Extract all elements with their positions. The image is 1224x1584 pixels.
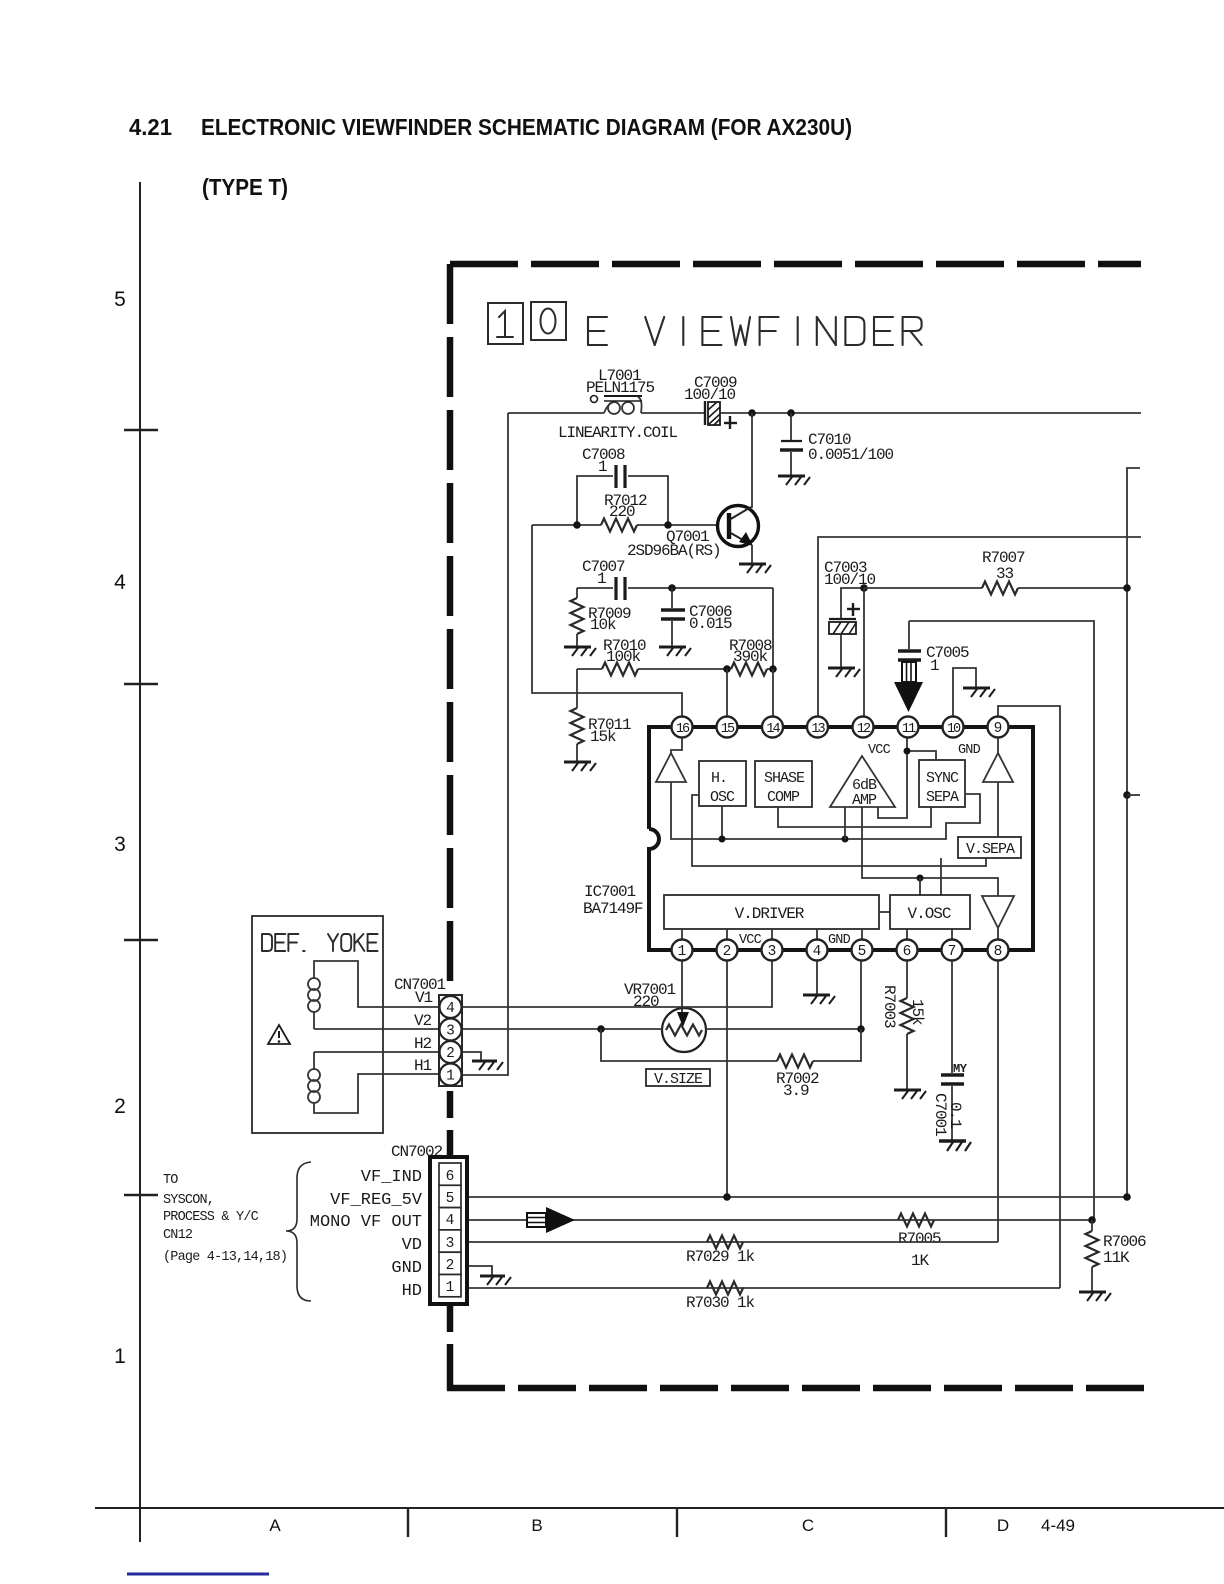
resistor R7008 390k (729, 637, 773, 676)
svg-text:A: A (269, 1516, 281, 1535)
svg-text:VF_IND: VF_IND (361, 1168, 422, 1187)
svg-text:2: 2 (446, 1258, 455, 1274)
resistor R7009 10k (571, 588, 632, 646)
svg-text:14: 14 (766, 722, 780, 737)
svg-text:R7003: R7003 (880, 985, 898, 1028)
svg-text:C: C (802, 1516, 814, 1535)
left margin rule (114, 182, 158, 1542)
svg-text:3: 3 (446, 1024, 455, 1040)
svg-text:V2: V2 (414, 1012, 432, 1030)
block number boxes: 1 0 (488, 302, 566, 344)
CN7002 pin 4 (439, 1208, 461, 1230)
svg-text:0.0051/100: 0.0051/100 (808, 446, 894, 464)
svg-text:1: 1 (446, 1280, 455, 1296)
node: R7007 / rail junction (1123, 584, 1131, 592)
svg-text:H.: H. (711, 770, 727, 787)
node: R7008 right junction (769, 665, 777, 673)
arrow (MONO VF OUT) (527, 1207, 575, 1233)
svg-text:H1: H1 (414, 1057, 432, 1075)
wire: VD run (467, 1241, 998, 1243)
DEF. YOKE box (252, 916, 383, 1133)
warning triangle (268, 1025, 290, 1044)
svg-text:V.OSC: V.OSC (907, 905, 950, 923)
svg-text:13: 13 (811, 722, 825, 737)
svg-text:220: 220 (609, 503, 635, 521)
IC pin 3 (762, 940, 783, 961)
svg-text:IC7001: IC7001 (584, 883, 636, 901)
wire: pin 8 drop to VD run (997, 961, 999, 1242)
wire: right vertical rail x1127 (1127, 468, 1140, 1197)
IC pin 1 (672, 940, 693, 961)
node: R7012 right junction (664, 521, 672, 529)
ground (C7006) (659, 647, 691, 656)
blue footer line (127, 1573, 269, 1576)
node: R7010/R7008 junction (723, 665, 731, 673)
node: lower bus / V.OSC junction (917, 875, 924, 882)
svg-text:220: 220 (633, 993, 659, 1011)
IC internal: V.DRIVER block (664, 895, 879, 929)
wire/ground (CN7001 pin 2) (462, 1052, 503, 1070)
wire: SHASE COMP to SYNC SEPA link (778, 807, 931, 827)
svg-text:0.015: 0.015 (689, 615, 732, 633)
wire: VR7001 right to pin 5 (706, 961, 861, 1029)
resistor R7007 33 (864, 549, 1127, 595)
svg-text:PELN1175: PELN1175 (586, 379, 655, 397)
svg-text:VCC: VCC (739, 933, 762, 948)
label box V.SIZE (646, 1069, 710, 1088)
ground (C7010) (778, 476, 810, 485)
wire: V.SEPA bottom to V.OSC top (940, 858, 942, 895)
IC pin 13 (807, 717, 828, 738)
svg-text:(TYPE T): (TYPE T) (202, 174, 288, 200)
resistor R7029 1k (686, 1236, 755, 1267)
capacitor C7007 1 (577, 558, 773, 600)
svg-text:TO: TO (163, 1173, 178, 1188)
svg-text:15: 15 (721, 722, 735, 737)
svg-text:12: 12 (857, 722, 871, 737)
svg-text:COMP: COMP (767, 789, 800, 806)
dashed schematic border top (450, 261, 1141, 268)
page title (129, 114, 852, 200)
curly brace (286, 1162, 311, 1301)
node: pin 11 branch junction (904, 748, 911, 755)
IC internal: V.SEPA block (958, 837, 1021, 858)
vertical deflection coil (V1-V2) (308, 961, 439, 1029)
wire: pin 1 to VR7001 wiper (681, 961, 683, 1013)
CN7002 pin 3 (439, 1230, 461, 1252)
ground (C7003) (828, 668, 860, 677)
IC pin 6 (897, 940, 918, 961)
svg-text:MY: MY (953, 1062, 968, 1076)
svg-text:15k: 15k (908, 999, 926, 1025)
resistor R7010 100k (577, 637, 727, 676)
resistor R7005 1K (898, 1214, 941, 1271)
svg-text:3.9: 3.9 (783, 1082, 809, 1100)
svg-text:4: 4 (446, 1213, 455, 1229)
CN7002 pin 5 (439, 1185, 461, 1207)
capacitor C7008 1 (577, 446, 668, 525)
wire: pin 9 loop to x1060 drop (998, 706, 1060, 1288)
wire: junction to pin 15 (726, 669, 728, 717)
svg-text:390k: 390k (733, 648, 768, 666)
svg-text:GND: GND (391, 1259, 422, 1278)
svg-text:R7005: R7005 (898, 1230, 941, 1248)
IC pin 15 (717, 717, 738, 738)
capacitor C7009 100/10 (electrolytic) (684, 374, 737, 429)
svg-text:LINEARITY.COIL: LINEARITY.COIL (558, 424, 678, 442)
CN7001 pin 1 (440, 1064, 462, 1086)
svg-text:3: 3 (768, 944, 777, 960)
svg-text:4.21: 4.21 (129, 114, 172, 140)
capacitor C7003 100/10 (electrolytic) (824, 559, 876, 667)
svg-text:(Page 4-13,14,18): (Page 4-13,14,18) (163, 1250, 287, 1265)
IC internal: V.OSC block (879, 895, 970, 929)
svg-text:100k: 100k (606, 648, 641, 666)
IC pin 14 (762, 717, 783, 738)
svg-text:5: 5 (446, 1191, 455, 1207)
resistor R7002 3.9 (parallel branch) (601, 1029, 861, 1100)
svg-text:2SD96BA(RS): 2SD96BA(RS) (627, 542, 721, 560)
svg-text:4-49: 4-49 (1041, 1516, 1075, 1535)
svg-text:4: 4 (114, 571, 126, 594)
svg-text:ELECTRONIC VIEWFINDER SCHEMATI: ELECTRONIC VIEWFINDER SCHEMATIC DIAGRAM … (201, 114, 852, 140)
dashed schematic border bottom (447, 1385, 1146, 1392)
svg-text:0.1: 0.1 (946, 1102, 964, 1128)
wire: inner rail to pin16 (532, 525, 682, 717)
node: junction top rail / Q7001 collector (748, 409, 756, 417)
svg-text:V.SIZE: V.SIZE (654, 1071, 703, 1088)
wire: junction to V.OSC top (919, 878, 921, 895)
wire: junction to pin 14 (772, 669, 774, 717)
resistor R7012 220 (532, 492, 718, 532)
ground (Q7001 emitter) (739, 564, 771, 573)
svg-text:2: 2 (114, 1095, 126, 1118)
svg-text:R7029 1k: R7029 1k (686, 1248, 755, 1266)
svg-text:PROCESS & Y/C: PROCESS & Y/C (163, 1210, 259, 1225)
IC internal: SHASE COMP block (755, 761, 812, 807)
wire: C7007 node down to R7008 right (772, 588, 774, 669)
CN7001 pin 3 (440, 1019, 462, 1041)
node: VR right / pin5 / R7002 junction (857, 1025, 865, 1033)
svg-text:SEPA: SEPA (926, 789, 959, 806)
wire: VF_REG_5V run (467, 1196, 1127, 1198)
IC internal: amp triangle under pin 9 (983, 738, 1013, 837)
svg-text:16: 16 (676, 722, 690, 737)
svg-text:1: 1 (678, 944, 687, 960)
IC internal: SYNC SEPA block (919, 760, 965, 807)
ground (R7006) (1079, 1292, 1111, 1301)
svg-text:1: 1 (446, 1069, 455, 1085)
svg-text:3: 3 (446, 1236, 455, 1252)
svg-text:11: 11 (902, 722, 916, 737)
svg-text:6: 6 (446, 1169, 455, 1185)
node: H.OSC bus junction (719, 836, 726, 843)
svg-text:SYSCON,: SYSCON, (163, 1193, 214, 1208)
svg-text:5: 5 (114, 288, 126, 311)
svg-text:8: 8 (994, 944, 1003, 960)
horizontal deflection coil (H2-H1) (308, 1052, 439, 1113)
bottom margin rule (95, 1508, 1224, 1537)
svg-text:VD: VD (402, 1236, 422, 1255)
CN7001 pin 2 (440, 1041, 462, 1063)
svg-text:SHASE: SHASE (764, 770, 805, 787)
node: pin2/VF_REG_5V junction (723, 1193, 731, 1201)
svg-text:3: 3 (114, 833, 126, 856)
IC internal: bus wire from triangle-16 (671, 782, 980, 839)
IC pin 16 (672, 717, 693, 738)
ground (R7009) (564, 647, 596, 656)
svg-text:11K: 11K (1103, 1249, 1130, 1267)
potentiometer VR7001 220 (624, 981, 706, 1052)
svg-text:GND: GND (828, 933, 851, 948)
IC pin 2 (717, 940, 738, 961)
resistor R7003 15k (pin 6) (880, 961, 926, 1089)
wire: C7005 top run and right drop x1094 (909, 621, 1094, 1220)
wire: left rail from top wire down to H1 (462, 413, 508, 1075)
wire: pin 3 to V1 run (462, 961, 772, 1007)
svg-text:1: 1 (930, 657, 939, 675)
wire: pin 13 riser and top run (818, 537, 1141, 717)
IC pin 5 (852, 940, 873, 961)
node: C7007/C7006 junction (668, 584, 676, 592)
svg-text:OSC: OSC (710, 789, 735, 806)
resistor R7011 15k (571, 669, 632, 761)
resistor R7030 1k (686, 1282, 755, 1313)
connector CN7002 (391, 1143, 467, 1304)
svg-text:33: 33 (996, 565, 1014, 583)
capacitor C7010 0.0051/100 (780, 413, 894, 475)
wire: HD run (467, 1287, 1060, 1289)
wire/ground (CN7002 pin 2) (464, 1266, 511, 1285)
svg-text:BA7149F: BA7149F (583, 900, 643, 918)
svg-text:1: 1 (597, 570, 606, 588)
wire: V2 run to VR7001 left (462, 1028, 662, 1030)
svg-text:GND: GND (958, 743, 981, 758)
node: R7012 left junction (573, 521, 581, 529)
IC internal: 6dB AMP triangle (830, 756, 895, 809)
wire: junction down to pin 12 (863, 588, 865, 717)
transistor Q7001 2SD96BA(RS) (627, 506, 759, 564)
svg-text:H2: H2 (414, 1035, 432, 1053)
svg-text:R7030 1k: R7030 1k (686, 1294, 755, 1312)
svg-text:AMP: AMP (852, 792, 877, 809)
IC pin 12 (853, 717, 874, 738)
svg-text:100/10: 100/10 (684, 386, 736, 404)
svg-text:7: 7 (948, 944, 957, 960)
capacitor C7005 1 (898, 621, 969, 675)
svg-text:HD: HD (402, 1282, 422, 1301)
IC pin 7 (942, 940, 963, 961)
svg-text:D: D (997, 1516, 1009, 1535)
wire: top horizontal rail (508, 412, 1141, 414)
node: junction top rail / C7010 (787, 409, 795, 417)
svg-text:B: B (531, 1516, 542, 1535)
dashed border left segments near connectors (447, 1091, 454, 1118)
resistor R7006 11K (1086, 1220, 1147, 1291)
wire: H.OSC left long loop to V.SEPA bottom (692, 795, 986, 866)
arrow into pin 11 (894, 662, 923, 712)
IC internal: amp triangle under pin 16 (656, 738, 686, 782)
CN7002 pin 6 (439, 1163, 461, 1185)
capacitor C7001 0.1 MY (pin 7) (931, 961, 968, 1140)
IC7001 BA7149F package outline (583, 727, 1033, 950)
svg-text:1: 1 (114, 1345, 126, 1368)
svg-text:SYNC: SYNC (926, 770, 959, 787)
svg-text:VF_REG_5V: VF_REG_5V (330, 1191, 423, 1210)
connector CN7001 (394, 976, 462, 1086)
capacitor C7006 0.015 (661, 588, 732, 646)
svg-text:CN12: CN12 (163, 1228, 193, 1243)
ground (R7011) (564, 762, 596, 771)
svg-text:4: 4 (446, 1001, 455, 1017)
svg-text:9: 9 (994, 721, 1003, 737)
node: rail/VF_REG_5V junction (1123, 1193, 1131, 1201)
node: rail stub junction (1123, 791, 1140, 799)
svg-text:15k: 15k (590, 728, 616, 746)
node: AMP bus junction (842, 836, 849, 843)
wire/ground (pin 4) (803, 961, 835, 1004)
inductor L7001 PELN1175 linearity coil (558, 367, 678, 442)
IC pin 8 (988, 940, 1009, 961)
svg-text:10: 10 (947, 722, 961, 737)
svg-text:V1: V1 (415, 989, 433, 1007)
svg-text:1: 1 (598, 458, 607, 476)
wire: pin 2 long drop (726, 961, 728, 1197)
IC internal: bottom pin stubs (682, 928, 998, 940)
svg-text:1K: 1K (911, 1252, 930, 1270)
wire: AMP center to lower bus (862, 807, 998, 896)
wire: collector drop (751, 413, 753, 508)
svg-text:2: 2 (723, 944, 732, 960)
wire/ground (pin 10) (953, 668, 995, 717)
svg-text:MONO VF OUT: MONO VF OUT (310, 1213, 422, 1232)
svg-text:V.SEPA: V.SEPA (966, 841, 1015, 858)
CN7001 pin 4 (440, 996, 462, 1018)
node: MONO/R7006 junction (1088, 1216, 1096, 1224)
svg-text:10k: 10k (590, 616, 616, 634)
label: TO SYSCON block (163, 1173, 287, 1265)
svg-text:5: 5 (858, 944, 867, 960)
IC pin 9 (988, 717, 1009, 738)
CN7002 pin 2 (439, 1252, 461, 1274)
IC internal: H.OSC block (699, 761, 746, 839)
dashed schematic border left (447, 264, 454, 992)
svg-text:2: 2 (446, 1046, 455, 1062)
IC pin 11 (898, 717, 919, 738)
node: V2 / R7002 branch junction (597, 1025, 605, 1033)
node: C7003/R7007/pin12 junction (860, 584, 868, 592)
wire: pin 11 internal branches (878, 738, 936, 818)
wire: MONO VF OUT run (467, 1219, 1092, 1221)
CN7002 pin 1 (439, 1275, 461, 1297)
ground (R7003) (894, 1090, 926, 1099)
IC internal: inverted triangle to pin 8 (982, 896, 1014, 928)
svg-text:100/10: 100/10 (824, 571, 876, 589)
wire: AMP base left to bus (844, 807, 846, 839)
E VIEWFINDER title (588, 317, 922, 345)
svg-text:4: 4 (813, 944, 822, 960)
ground (C7001) (939, 1141, 971, 1151)
svg-text:VCC: VCC (868, 743, 891, 758)
IC pin 10 (943, 717, 964, 738)
svg-text:V.DRIVER: V.DRIVER (735, 905, 805, 923)
IC pin 4 (807, 940, 828, 961)
svg-text:6: 6 (903, 944, 912, 960)
